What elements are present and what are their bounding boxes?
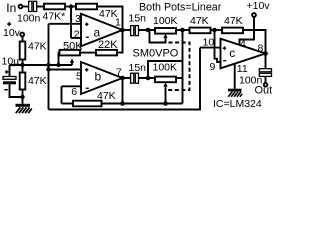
wire cap to R1 bbox=[37, 6, 44, 8]
ground right pin11 bbox=[228, 89, 242, 92]
opamp a minus bbox=[86, 37, 89, 38]
svg-text:50K: 50K bbox=[63, 41, 83, 53]
op-amp U1b triangle bbox=[81, 62, 123, 94]
svg-text:15n: 15n bbox=[129, 13, 147, 25]
wire 50k wiper stem bbox=[71, 63, 73, 65]
wire pin11 drop bbox=[234, 64, 236, 89]
wire pin4 elbow bbox=[240, 30, 255, 45]
svg-text:IC=LM324: IC=LM324 bbox=[213, 98, 262, 110]
wire pin10 drop bbox=[215, 30, 221, 62]
wire c out to cap bbox=[265, 54, 267, 69]
svg-text:10v: 10v bbox=[3, 27, 21, 39]
svg-text:8: 8 bbox=[258, 43, 264, 55]
junction rail 47k bbox=[20, 63, 24, 67]
svg-text:1: 1 bbox=[115, 17, 121, 29]
wire bottom long to pin9 wall bbox=[49, 48, 201, 110]
junction after 15n top bbox=[146, 28, 151, 33]
capacitor 15n top plates bbox=[131, 26, 134, 36]
opamp c minus bbox=[223, 60, 226, 61]
wire pin5 horizontal bbox=[49, 69, 82, 71]
wiper arrow 100K bottom bbox=[163, 82, 167, 86]
resistor 22K bbox=[96, 50, 117, 56]
svg-text:47K: 47K bbox=[28, 75, 47, 87]
wire top pot right to r47k bbox=[176, 29, 190, 31]
junction cap bottom bbox=[20, 95, 24, 99]
svg-text:100n: 100n bbox=[17, 13, 41, 25]
resistor 47K right2 bbox=[222, 28, 243, 34]
wire bottom pot right lead bbox=[176, 77, 183, 79]
resistor 47K feedback b bbox=[73, 101, 102, 107]
wire left vertical long bbox=[48, 24, 50, 110]
potentiometer 100K top body bbox=[155, 28, 176, 34]
svg-text:5: 5 bbox=[76, 71, 82, 83]
resistor 47K right1 bbox=[190, 28, 211, 34]
svg-text:47K*: 47K* bbox=[43, 11, 66, 23]
svg-text:100K: 100K bbox=[153, 62, 178, 74]
junction c output bbox=[263, 51, 268, 56]
wire vref rail bbox=[10, 64, 73, 66]
resistor 47K vertical top-left bbox=[20, 42, 26, 60]
wire pin6 horizontal bbox=[62, 85, 82, 87]
wire fb rail b right segment bbox=[102, 103, 183, 105]
terminal In bbox=[19, 5, 23, 9]
wire pin2 horizontal bbox=[71, 37, 81, 39]
svg-text:7: 7 bbox=[116, 67, 122, 79]
wire cap15n to node bbox=[139, 29, 156, 31]
svg-text:In: In bbox=[6, 1, 16, 15]
+10v left plus sign bbox=[7, 23, 11, 25]
opamp c plus bbox=[223, 48, 226, 49]
potentiometer 50K body bbox=[60, 50, 81, 56]
svg-text:6: 6 bbox=[71, 86, 77, 98]
wire bridge over 100K label bbox=[148, 61, 183, 78]
ground left bbox=[16, 104, 31, 107]
wire bottom wiper stem bbox=[165, 86, 167, 104]
wire r47k bottom stubs bbox=[22, 65, 24, 73]
capacitor 10u top plate hollow bbox=[3, 77, 16, 80]
wire 22k right corner up to a out bbox=[117, 30, 123, 53]
junction node R1-R2 bbox=[69, 4, 73, 8]
terminal Out bbox=[264, 83, 268, 87]
svg-text:15n: 15n bbox=[129, 62, 147, 74]
potentiometer 100K bottom body bbox=[155, 77, 176, 83]
resistor R 47K* bbox=[44, 4, 65, 10]
junction pot top right bbox=[180, 28, 185, 33]
junction b output bbox=[120, 76, 125, 81]
capacitor 100n output plates bbox=[259, 69, 271, 72]
wiper arrow 100K top bbox=[163, 34, 167, 38]
svg-text:3: 3 bbox=[75, 13, 81, 25]
wire r47k top bottom stub bbox=[22, 60, 24, 66]
capacitor 10u bottom plate solid bbox=[3, 81, 16, 84]
junction b fb rail at output bbox=[120, 101, 125, 106]
svg-text:b: b bbox=[95, 70, 102, 84]
wire pot50 left lead bbox=[59, 53, 60, 65]
wire pin10 horizontal bbox=[200, 47, 221, 49]
svg-text:47K: 47K bbox=[224, 15, 243, 27]
junction divider mid bbox=[212, 28, 217, 33]
wire input to cap bbox=[23, 6, 29, 8]
svg-text:47K: 47K bbox=[28, 41, 47, 53]
wire b out down bbox=[122, 78, 124, 104]
svg-text:22K: 22K bbox=[98, 39, 118, 51]
svg-text:2: 2 bbox=[74, 28, 80, 40]
svg-text:10: 10 bbox=[203, 37, 215, 49]
wire cap15nb to node bbox=[139, 77, 156, 79]
wire pin3 horizontal bbox=[49, 23, 82, 25]
svg-text:10µ: 10µ bbox=[2, 56, 20, 68]
resistor 47K feedback a bbox=[76, 4, 97, 10]
wire pot50 right to 22k bbox=[80, 52, 96, 54]
svg-text:+10v: +10v bbox=[247, 0, 271, 12]
junction rail pin3 column bbox=[46, 63, 50, 67]
wire a out to cap15n bbox=[123, 29, 131, 31]
wire right long vertical bbox=[182, 30, 184, 104]
op-amp U1a triangle bbox=[81, 14, 123, 46]
capacitor 100n input plates bbox=[29, 1, 32, 11]
wiper arrow 50K bbox=[70, 59, 74, 63]
cap 10u minus sign bbox=[4, 89, 8, 90]
wire 10u bottom lead bbox=[10, 84, 23, 97]
svg-text:a: a bbox=[94, 25, 101, 39]
cap 10u plus sign bbox=[5, 71, 9, 72]
svg-text:47K: 47K bbox=[190, 15, 209, 27]
dashed gang link bbox=[168, 43, 190, 91]
wire fb rail b left segment bbox=[62, 103, 74, 105]
junction rail pot drop bbox=[56, 63, 60, 67]
wire 10u top lead bbox=[9, 65, 11, 77]
wire r2 to corner down output c bbox=[243, 30, 266, 54]
junction pin5 takeoff bbox=[46, 67, 50, 71]
wire r to r node bbox=[211, 29, 223, 31]
junction after 15n bottom bbox=[146, 76, 151, 81]
svg-text:4: 4 bbox=[240, 38, 246, 50]
resistor 47K vertical lower-left bbox=[20, 73, 26, 90]
svg-text:c: c bbox=[229, 46, 235, 60]
wire R2 to output corner bbox=[97, 7, 123, 31]
wire R1 to R2 through node bbox=[65, 6, 76, 8]
opamp b minus bbox=[86, 88, 89, 89]
svg-text:11: 11 bbox=[237, 63, 248, 75]
svg-text:Out: Out bbox=[255, 85, 273, 97]
wire node down pin2 column bbox=[70, 7, 72, 39]
svg-text:47K: 47K bbox=[97, 90, 116, 102]
opamp a plus bbox=[85, 24, 88, 25]
svg-text:100K: 100K bbox=[153, 15, 178, 27]
op-amp U1c triangle bbox=[221, 39, 266, 69]
wire pin6 corner to fb rail bbox=[61, 86, 63, 103]
wire top pot wiper loop bbox=[150, 31, 166, 43]
opamp b plus bbox=[85, 69, 88, 70]
wire +10v stub bbox=[22, 36, 24, 41]
wire +10v right stub bbox=[253, 17, 255, 30]
svg-text:Both Pots=Linear: Both Pots=Linear bbox=[139, 2, 222, 14]
wire b out to cap15n b bbox=[123, 77, 131, 79]
svg-text:9: 9 bbox=[210, 61, 216, 73]
svg-text:SM0VPO: SM0VPO bbox=[133, 48, 179, 60]
junction a output bbox=[120, 28, 125, 33]
terminal +10v right bbox=[252, 13, 256, 17]
junction wiper bottom rail bbox=[163, 101, 168, 106]
capacitor 15n bottom plates bbox=[131, 73, 134, 83]
terminal +10v left bbox=[20, 33, 24, 37]
wire cap out stub bbox=[265, 76, 267, 83]
